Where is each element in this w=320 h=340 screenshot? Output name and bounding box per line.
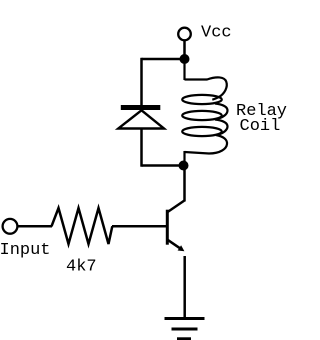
svg-text:Vcc: Vcc	[201, 24, 232, 43]
svg-text:4k7: 4k7	[66, 258, 97, 277]
wire input to resistor	[17, 225, 52, 228]
transistor Q1 collector diagonal	[168, 200, 185, 212]
wire diode branch lower	[140, 128, 143, 166]
transistor Q1 base bar	[166, 210, 169, 245]
wire coil stem bottom	[183, 151, 185, 166]
terminal Vcc (open circle)	[178, 28, 191, 41]
relay coil L1 loop 2	[182, 111, 222, 120]
wire top rail to diode branch	[142, 58, 185, 61]
wire Vcc terminal to top node	[183, 41, 186, 60]
wire collector vertical	[183, 166, 186, 202]
node junction bottom (dot)	[179, 161, 189, 171]
relay coil L1 loop 1	[182, 95, 222, 104]
svg-text:Input: Input	[0, 241, 51, 260]
ground symbol line 3	[177, 337, 191, 340]
diode D1 cathode bar	[121, 105, 161, 110]
wire coil stem top	[183, 59, 185, 80]
relay coil L1 loop 3	[182, 127, 222, 136]
node junction top (dot)	[180, 54, 190, 64]
transistor Q1 emitter diagonal	[168, 240, 182, 250]
relay coil L1 bulge 2-3	[215, 120, 228, 135]
diode D1 triangle	[118, 110, 164, 128]
svg-text:Coil: Coil	[240, 117, 281, 136]
ground symbol line 2	[172, 328, 198, 331]
wire resistor to base	[112, 225, 166, 228]
relay coil L1 bulge 1-2	[215, 104, 228, 119]
relay coil L1 top hook	[185, 77, 227, 99]
wire bottom rail diode to collector node	[142, 164, 184, 167]
resistor R1 zigzag	[52, 208, 113, 244]
ground symbol line 1	[165, 317, 205, 320]
terminal Input (open circle)	[3, 219, 18, 234]
wire emitter vertical to ground	[183, 256, 186, 319]
wire diode branch upper	[140, 58, 143, 106]
relay coil L1 bottom hook	[185, 135, 228, 154]
transistor Q1 emitter arrowhead	[178, 245, 185, 251]
